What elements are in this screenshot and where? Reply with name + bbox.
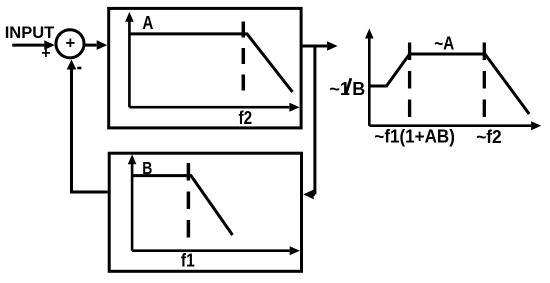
closed-loop gain curve bbox=[369, 54, 529, 114]
closed-loop plot y-axis bbox=[368, 38, 371, 125]
svg-text:~f1(1+AB): ~f1(1+AB) bbox=[374, 127, 455, 147]
plot B x-axis bbox=[132, 249, 290, 252]
wire summer to block A bbox=[84, 44, 97, 47]
svg-text:f2: f2 bbox=[239, 108, 253, 128]
svg-text:+: + bbox=[66, 34, 76, 53]
svg-text:~f2: ~f2 bbox=[476, 127, 502, 147]
block A (forward amplifier) box bbox=[109, 8, 301, 128]
svg-text:INPUT: INPUT bbox=[5, 24, 55, 42]
plot B corner-frequency dashed line bbox=[187, 163, 191, 239]
wire block B output to summer bbox=[72, 69, 108, 192]
closed-loop upper corner dashed line bbox=[483, 43, 486, 118]
closed-loop plot x-axis bbox=[369, 124, 531, 127]
plot B y-axis bbox=[131, 164, 134, 251]
wire feedback tap down bbox=[313, 46, 316, 194]
plot A corner-frequency dashed line bbox=[242, 22, 246, 94]
wire output from block A bbox=[301, 45, 327, 48]
plot A gain curve bbox=[129, 34, 292, 92]
plot A x-axis bbox=[129, 106, 289, 109]
summing junction bbox=[56, 30, 84, 58]
svg-text:f1: f1 bbox=[181, 251, 195, 271]
svg-text:+: + bbox=[41, 45, 50, 62]
minus sign (feedback polarity) bbox=[77, 67, 81, 70]
closed-loop lower corner dashed line bbox=[408, 43, 411, 118]
wire feedback into block B bbox=[313, 193, 315, 196]
plot B gain curve bbox=[132, 176, 232, 235]
svg-text:A: A bbox=[142, 13, 153, 33]
svg-text:~A: ~A bbox=[434, 34, 454, 54]
block B (feedback network) box bbox=[109, 153, 301, 271]
svg-text:B: B bbox=[352, 79, 365, 99]
plot A y-axis bbox=[128, 22, 131, 108]
slash of ~1/B bbox=[346, 78, 351, 95]
wire input to summer bbox=[12, 44, 45, 47]
